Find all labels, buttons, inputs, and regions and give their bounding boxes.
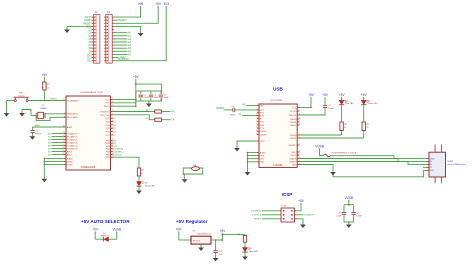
- svg-text:TXD: TXD: [260, 105, 265, 107]
- svg-text:A5: A5: [48, 147, 51, 150]
- svg-text:+5V: +5V: [42, 73, 49, 77]
- svg-text:+5V: +5V: [322, 93, 329, 97]
- svg-text:A3: A3: [48, 141, 51, 144]
- svg-text:RX: RX: [243, 103, 247, 106]
- svg-text:D7: D7: [113, 135, 117, 137]
- svg-text:C10: C10: [219, 251, 224, 253]
- svg-text:100nF: 100nF: [154, 97, 160, 99]
- svg-text:26: 26: [299, 124, 301, 126]
- svg-text:C9: C9: [356, 213, 359, 215]
- svg-text:PC6(RESET): PC6(RESET): [67, 100, 79, 102]
- svg-text:16: 16: [256, 120, 258, 122]
- svg-text:F1 MF-MSMF050-2 500mA: F1 MF-MSMF050-2 500mA: [332, 152, 357, 155]
- svg-text:D6: D6: [249, 248, 253, 250]
- svg-text:AREF: AREF: [67, 126, 73, 129]
- svg-text:C2: C2: [143, 94, 146, 96]
- svg-text:VCC: VCC: [292, 107, 297, 109]
- svg-text:16MHz: 16MHz: [40, 108, 47, 110]
- svg-text:RESET: RESET: [118, 19, 127, 22]
- svg-text:+5V: +5V: [92, 228, 99, 232]
- svg-text:RESET: RESET: [50, 98, 58, 100]
- svg-text:PC3(ADC3): PC3(ADC3): [67, 141, 78, 144]
- svg-text:CBUS1: CBUS1: [290, 138, 298, 140]
- svg-text:A1: A1: [48, 135, 51, 138]
- svg-text:+5V AUTO SELECTOR: +5V AUTO SELECTOR: [81, 219, 130, 224]
- svg-text:RX: RX: [171, 110, 175, 113]
- svg-text:TX: TX: [238, 113, 241, 116]
- svg-text:13: 13: [256, 117, 258, 119]
- svg-text:15: 15: [109, 60, 111, 62]
- svg-text:AGND: AGND: [260, 151, 266, 154]
- svg-text:PC1(ADC1): PC1(ADC1): [67, 135, 78, 138]
- svg-text:D4: D4: [346, 100, 349, 102]
- svg-text:VUSB: VUSB: [344, 196, 353, 200]
- svg-text:+5V: +5V: [308, 93, 315, 97]
- svg-text:22: 22: [256, 127, 258, 129]
- svg-text:VCC: VCC: [105, 99, 110, 101]
- svg-text:C8: C8: [339, 213, 342, 215]
- svg-text:D8: D8: [113, 140, 117, 142]
- svg-text:D13/SCK: D13/SCK: [113, 154, 123, 156]
- svg-text:100nF: 100nF: [35, 133, 41, 135]
- svg-text:Blue LED: Blue LED: [249, 251, 258, 253]
- svg-text:VCCIO: VCCIO: [290, 111, 297, 113]
- svg-text:GND: GND: [292, 164, 297, 166]
- svg-text:Green LED: Green LED: [368, 103, 379, 105]
- svg-text:CBUS1: CBUS1: [290, 122, 298, 124]
- svg-text:D9: D9: [113, 143, 117, 145]
- svg-text:A6: A6: [48, 150, 51, 153]
- svg-text:D6: D6: [113, 132, 117, 134]
- svg-text:A7: A7: [48, 153, 51, 156]
- svg-text:23: 23: [299, 154, 301, 156]
- svg-text:+5V: +5V: [220, 229, 227, 233]
- svg-text:D4: D4: [113, 125, 117, 127]
- svg-text:VCC: VCC: [430, 170, 435, 172]
- svg-text:11: 11: [97, 48, 99, 50]
- svg-text:LM1117MPX-5.0: LM1117MPX-5.0: [197, 233, 213, 235]
- svg-text:ATMEGA328: ATMEGA328: [81, 166, 96, 169]
- svg-text:C6: C6: [231, 106, 234, 108]
- svg-text:+5V Regulator: +5V Regulator: [176, 219, 208, 224]
- svg-text:RXD: RXD: [260, 115, 265, 117]
- svg-text:ICSP: ICSP: [282, 206, 288, 208]
- svg-text:GND: GND: [260, 159, 265, 161]
- svg-text:R3: R3: [141, 170, 144, 172]
- svg-text:(reset): (reset): [18, 94, 24, 97]
- svg-text:1k: 1k: [344, 127, 346, 129]
- svg-text:100nF: 100nF: [143, 97, 149, 99]
- svg-text:1: 1: [257, 104, 258, 106]
- svg-text:15: 15: [97, 60, 99, 62]
- svg-text:100nF: 100nF: [164, 97, 170, 99]
- svg-text:D11/MOSI: D11/MOSI: [113, 149, 123, 151]
- svg-text:6: 6: [299, 110, 300, 112]
- svg-text:A4: A4: [48, 144, 51, 147]
- svg-text:micro USBFemale: micro USBFemale: [448, 163, 467, 166]
- svg-text:28: 28: [256, 133, 258, 135]
- svg-text:Setup LED: Setup LED: [145, 184, 156, 187]
- svg-text:D2: D2: [113, 118, 117, 120]
- svg-text:CBUS0: CBUS0: [290, 135, 298, 137]
- svg-text:D13/SCK: D13/SCK: [118, 58, 129, 61]
- svg-text:3V3OUT: 3V3OUT: [289, 115, 298, 117]
- svg-text:RTS: RTS: [260, 113, 265, 115]
- svg-text:C7: C7: [328, 105, 331, 107]
- svg-text:D11/MOSI: D11/MOSI: [304, 215, 314, 217]
- svg-text:DGND: DGND: [67, 164, 73, 166]
- svg-text:1uF: 1uF: [219, 254, 223, 256]
- svg-text:MBR120: MBR120: [101, 236, 110, 238]
- svg-text:13: 13: [109, 54, 111, 56]
- svg-text:A2: A2: [48, 138, 51, 141]
- svg-text:PC2(ADC2): PC2(ADC2): [67, 138, 78, 141]
- svg-text:USBDP: USBDP: [290, 161, 298, 163]
- svg-text:14: 14: [109, 57, 111, 59]
- svg-text:USB1: USB1: [448, 161, 454, 163]
- svg-text:PD0(RXD): PD0(RXD): [100, 111, 110, 113]
- svg-text:12: 12: [109, 51, 111, 53]
- svg-text:+5V: +5V: [155, 2, 162, 6]
- svg-text:PC0(ADC0): PC0(ADC0): [67, 132, 78, 135]
- svg-text:VUSB: VUSB: [112, 228, 121, 232]
- svg-text:USB: USB: [273, 87, 283, 92]
- svg-text:OSCI: OSCI: [292, 152, 297, 154]
- svg-text:ICSP: ICSP: [282, 192, 293, 197]
- svg-text:AGND: AGND: [67, 157, 73, 160]
- svg-text:16: 16: [299, 118, 301, 120]
- svg-text:10: 10: [109, 45, 111, 47]
- svg-text:DCD: DCD: [260, 122, 265, 124]
- svg-text:TX: TX: [171, 119, 174, 122]
- svg-text:PD1(TXD): PD1(TXD): [100, 115, 110, 117]
- svg-text:CBUS2: CBUS2: [260, 134, 268, 136]
- svg-text:1k: 1k: [366, 127, 368, 129]
- svg-text:10: 10: [97, 45, 99, 47]
- svg-text:+5V: +5V: [361, 93, 368, 97]
- svg-text:1k: 1k: [141, 173, 143, 175]
- svg-text:21: 21: [299, 121, 301, 123]
- svg-text:13: 13: [299, 144, 301, 146]
- svg-text:C4: C4: [164, 94, 167, 96]
- svg-text:CTS: CTS: [260, 128, 265, 130]
- svg-text:+5V: +5V: [133, 75, 140, 79]
- svg-text:D5: D5: [368, 100, 371, 102]
- svg-text:ADC7: ADC7: [67, 153, 73, 156]
- svg-text:OSCO: OSCO: [291, 155, 297, 157]
- svg-text:D12: D12: [87, 60, 92, 63]
- svg-text:19: 19: [256, 124, 258, 126]
- svg-text:VCC: VCC: [105, 103, 110, 105]
- svg-text:A0: A0: [48, 132, 51, 135]
- svg-text:18: 18: [299, 151, 301, 153]
- svg-text:DGND: DGND: [67, 161, 73, 163]
- svg-text:PB6(XTAL1): PB6(XTAL1): [67, 113, 78, 116]
- svg-text:100nF: 100nF: [356, 216, 362, 218]
- svg-text:+5V: +5V: [298, 199, 305, 203]
- svg-text:4.7uF: 4.7uF: [336, 216, 342, 218]
- svg-text:Red LED: Red LED: [346, 103, 355, 105]
- svg-text:FT232RL: FT232RL: [273, 164, 284, 167]
- svg-text:IN OUT: IN OUT: [193, 240, 201, 242]
- svg-text:U1 ATMEGA328_TQFP: U1 ATMEGA328_TQFP: [80, 91, 104, 94]
- svg-text:D-: D-: [430, 167, 433, 169]
- svg-text:P2: P2: [107, 11, 111, 14]
- svg-text:D12/MISO: D12/MISO: [251, 211, 262, 213]
- svg-text:7: 7: [257, 111, 258, 113]
- svg-text:C1: C1: [35, 131, 38, 133]
- svg-text:11: 11: [109, 48, 111, 50]
- svg-text:14: 14: [97, 57, 99, 59]
- svg-text:DTR: DTR: [260, 110, 265, 112]
- svg-text:VIN: VIN: [138, 2, 144, 6]
- svg-text:RESET: RESET: [254, 219, 262, 221]
- svg-text:USBDM: USBDM: [289, 158, 297, 160]
- svg-text:VIN: VIN: [176, 228, 182, 232]
- svg-text:AREF: AREF: [35, 124, 41, 127]
- svg-text:4: 4: [257, 109, 258, 111]
- svg-text:GND: GND: [260, 156, 265, 158]
- svg-text:1k: 1k: [47, 87, 49, 89]
- svg-text:SW1: SW1: [19, 93, 24, 95]
- svg-text:U2 FT232RL: U2 FT232RL: [270, 100, 283, 102]
- svg-text:PC4(ADC4): PC4(ADC4): [67, 144, 78, 147]
- svg-text:25: 25: [256, 130, 258, 132]
- svg-text:D3: D3: [113, 121, 117, 123]
- svg-text:PC5(ADC5): PC5(ADC5): [67, 147, 78, 150]
- svg-text:ADC6: ADC6: [67, 150, 73, 153]
- svg-text:D5: D5: [113, 128, 117, 130]
- svg-text:VUSB: VUSB: [315, 145, 324, 149]
- svg-text:DSR: DSR: [260, 125, 265, 127]
- svg-text:13: 13: [97, 54, 99, 56]
- svg-text:CBUS3: CBUS3: [290, 119, 298, 121]
- svg-text:D12/MISO: D12/MISO: [113, 152, 124, 154]
- svg-text:+5V: +5V: [339, 93, 346, 97]
- svg-text:R2: R2: [146, 118, 149, 120]
- svg-text:PB7(XTAL2): PB7(XTAL2): [67, 116, 78, 119]
- svg-text:C3: C3: [154, 94, 157, 96]
- svg-text:R7: R7: [47, 84, 50, 86]
- svg-text:R4: R4: [344, 124, 347, 126]
- svg-text:12: 12: [97, 51, 99, 53]
- svg-text:D3: D3: [145, 183, 149, 185]
- svg-text:D13/SCK: D13/SCK: [252, 215, 262, 217]
- svg-text:Y1: Y1: [42, 105, 45, 107]
- svg-text:100nF: 100nF: [230, 114, 236, 116]
- svg-text:U3: U3: [192, 230, 195, 232]
- svg-text:RESET#: RESET#: [289, 145, 298, 147]
- svg-text:A7: A7: [128, 53, 132, 56]
- svg-text:CBUS4: CBUS4: [260, 131, 268, 133]
- svg-text:GND: GND: [430, 158, 435, 160]
- svg-text:GND: GND: [260, 162, 265, 164]
- svg-text:R5: R5: [366, 124, 369, 126]
- svg-text:3V3: 3V3: [163, 2, 169, 6]
- svg-text:100nF: 100nF: [328, 108, 334, 110]
- svg-text:AVCC: AVCC: [104, 105, 110, 108]
- svg-text:TEST: TEST: [260, 141, 266, 143]
- svg-text:P1: P1: [95, 11, 99, 14]
- svg-text:CBUS0: CBUS0: [290, 125, 298, 127]
- svg-text:D10: D10: [113, 146, 118, 148]
